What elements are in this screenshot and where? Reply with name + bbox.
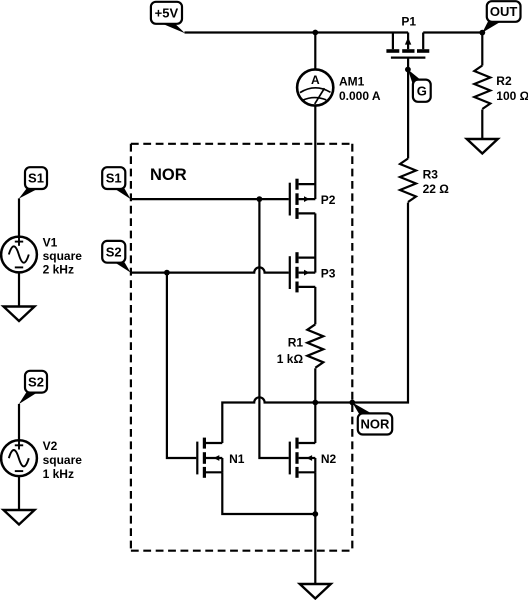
svg-text:S2: S2 bbox=[28, 374, 44, 389]
svg-text:100 Ω: 100 Ω bbox=[496, 89, 528, 103]
svg-text:G: G bbox=[417, 83, 427, 98]
svg-text:N2: N2 bbox=[321, 452, 337, 466]
svg-text:A: A bbox=[311, 73, 320, 87]
svg-text:N1: N1 bbox=[229, 452, 245, 466]
svg-text:2 kHz: 2 kHz bbox=[43, 263, 74, 277]
svg-text:0.000 A: 0.000 A bbox=[339, 89, 381, 103]
svg-text:square: square bbox=[43, 453, 83, 467]
svg-text:P2: P2 bbox=[321, 193, 336, 207]
svg-text:R1: R1 bbox=[288, 336, 304, 350]
svg-text:P1: P1 bbox=[401, 15, 416, 29]
svg-text:R3: R3 bbox=[423, 168, 439, 182]
svg-text:22 Ω: 22 Ω bbox=[423, 182, 450, 196]
svg-text:R2: R2 bbox=[496, 74, 512, 88]
svg-text:S2: S2 bbox=[106, 244, 122, 259]
svg-text:1 kΩ: 1 kΩ bbox=[277, 352, 304, 366]
svg-text:+5V: +5V bbox=[155, 5, 179, 20]
svg-text:AM1: AM1 bbox=[339, 75, 365, 89]
svg-text:square: square bbox=[43, 249, 83, 263]
svg-text:1 kHz: 1 kHz bbox=[43, 467, 74, 481]
svg-text:OUT: OUT bbox=[490, 4, 518, 19]
svg-text:NOR: NOR bbox=[150, 166, 187, 184]
svg-text:S1: S1 bbox=[106, 171, 122, 186]
svg-text:V1: V1 bbox=[43, 235, 58, 249]
svg-text:P3: P3 bbox=[321, 266, 336, 280]
svg-text:S1: S1 bbox=[28, 171, 44, 186]
svg-text:NOR: NOR bbox=[361, 417, 391, 432]
svg-text:V2: V2 bbox=[43, 439, 58, 453]
